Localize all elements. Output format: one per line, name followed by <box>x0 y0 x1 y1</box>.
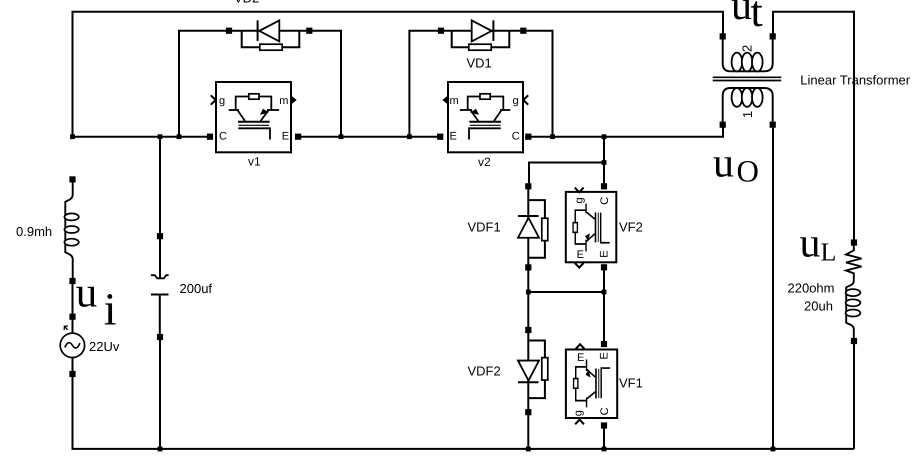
inductor load 20uh <box>846 281 861 338</box>
svg-text:g: g <box>574 197 586 203</box>
svg-text:VF2: VF2 <box>619 220 643 235</box>
source AC 22Uv <box>60 326 84 357</box>
svg-text:VDF1: VDF1 <box>468 220 501 235</box>
port VDF1 top <box>525 183 531 189</box>
wire transformer secondary to bottom rail <box>772 128 774 449</box>
port transformer bottom-right <box>770 122 776 128</box>
port VF2 C <box>601 183 607 189</box>
wire capacitor bottom stem <box>159 295 161 335</box>
svg-text:0.9mh: 0.9mh <box>16 224 52 239</box>
svg-text:E: E <box>450 130 457 142</box>
svg-text:200uf: 200uf <box>180 281 213 296</box>
port transformer bottom-left <box>720 122 726 128</box>
junction VD2 left stub <box>177 134 182 139</box>
port transformer top-left <box>720 33 726 39</box>
svg-text:v2: v2 <box>478 155 491 169</box>
junction capacitor branch <box>158 134 163 139</box>
port L1 top <box>69 176 75 182</box>
wire VD2 right stub <box>312 31 341 137</box>
svg-text:22Uv: 22Uv <box>89 339 120 354</box>
wire source stub top <box>72 319 74 333</box>
port source bottom <box>69 371 75 377</box>
port load bottom <box>851 338 857 344</box>
wire bottom rail <box>73 448 855 450</box>
junction cross left <box>526 290 531 295</box>
wire main rail segment 3 <box>531 128 723 137</box>
svg-text:E: E <box>282 130 289 142</box>
svg-text:220ohm: 220ohm <box>788 281 835 296</box>
IGBT module VF2 <box>566 188 617 268</box>
diode snubber VDF2 <box>518 333 548 409</box>
svg-text:C: C <box>599 407 611 415</box>
svg-text:v1: v1 <box>248 154 261 168</box>
diode snubber VDF1 <box>518 189 548 265</box>
junction VD1 left stub <box>407 134 412 139</box>
port VD2 right <box>306 28 312 34</box>
junction bottom rail VDF2 <box>526 447 531 452</box>
svg-text:E: E <box>599 352 611 359</box>
wire VDF1 to VDF2 <box>527 270 529 327</box>
IGBT module v2 <box>442 82 528 152</box>
wire right vertical lower <box>853 344 855 449</box>
wire VF2 feed <box>603 163 605 184</box>
port VD1 left <box>438 28 444 34</box>
wire VDF2 to bottom rail <box>527 415 529 449</box>
port v1 E <box>295 134 301 140</box>
wire capacitor branch upper <box>159 137 161 234</box>
wire cross connect <box>528 291 604 293</box>
svg-text:u: u <box>76 270 98 317</box>
svg-text:t: t <box>751 0 763 36</box>
svg-text:m: m <box>450 95 459 107</box>
junction bottom rail VF1 <box>602 447 607 452</box>
svg-text:m: m <box>279 95 288 107</box>
svg-text:g: g <box>572 410 584 416</box>
port VF1 C <box>601 422 607 428</box>
wire VD2 left stub <box>179 31 226 137</box>
port capacitor bottom <box>157 334 163 340</box>
wire cross to VF1 <box>603 292 605 341</box>
svg-text:1: 1 <box>740 111 755 118</box>
port VF2 E <box>601 264 607 270</box>
port v2 E <box>437 134 443 140</box>
port VDF2 top <box>525 327 531 333</box>
svg-text:O: O <box>737 154 759 189</box>
port VDF2 bottom <box>525 409 531 415</box>
svg-text:VDF2: VDF2 <box>468 364 501 379</box>
svg-text:VD2: VD2 <box>234 0 259 6</box>
resistor load 220ohm <box>846 246 862 282</box>
inductor L1 0.9mh <box>64 182 78 279</box>
junction node A (left rail / main rail) <box>70 134 75 139</box>
IGBT module v1 <box>211 82 297 152</box>
IGBT module VF1 <box>566 344 617 424</box>
port v2 C <box>525 134 531 140</box>
junction bottom rail capacitor <box>158 447 163 452</box>
svg-text:E: E <box>577 352 584 364</box>
port L1 bottom <box>69 278 75 284</box>
wire left vertical top <box>72 12 74 137</box>
wire L1 to source <box>72 283 74 314</box>
junction VF branch top <box>602 134 607 139</box>
svg-text:C: C <box>219 130 227 142</box>
junction VD1 right stub <box>550 134 555 139</box>
port source top <box>69 314 75 320</box>
svg-text:u: u <box>731 0 752 29</box>
junction bottom rail transformer <box>771 447 776 452</box>
wire VF2 to cross <box>603 270 605 292</box>
svg-text:Linear Transformer: Linear Transformer <box>800 73 910 88</box>
port load top <box>851 239 857 245</box>
svg-text:VF1: VF1 <box>619 376 643 391</box>
svg-text:u: u <box>713 140 734 186</box>
svg-text:E: E <box>599 250 611 257</box>
wire VF branch drop <box>603 137 605 163</box>
wire source stub bottom <box>72 358 74 372</box>
wire capacitor branch lower <box>159 340 161 449</box>
wire capacitor stub <box>159 239 161 278</box>
junction VD2 right stub <box>339 134 344 139</box>
linear transformer T1 <box>713 39 782 121</box>
port capacitor top <box>157 233 163 239</box>
wire left vertical bottom <box>72 377 74 450</box>
wire transformer top-right to right rail <box>773 12 854 34</box>
wire top rail <box>72 12 724 34</box>
port VD2 left <box>226 28 232 34</box>
svg-text:g: g <box>219 95 225 107</box>
wire right vertical <box>853 11 855 240</box>
diode snubber VD1 <box>444 20 520 50</box>
wire VD1 left stub <box>409 31 438 137</box>
svg-text:2: 2 <box>740 45 755 52</box>
svg-text:L: L <box>821 238 837 267</box>
junction cross right <box>602 290 607 295</box>
svg-text:C: C <box>599 197 611 205</box>
junction VF branch split <box>602 160 607 165</box>
wire main rail segment 1 <box>73 136 208 138</box>
diode snubber VD2 <box>231 20 307 50</box>
wire main rail segment 2 <box>301 136 438 138</box>
svg-text:g: g <box>513 95 519 107</box>
port v1 C <box>207 134 213 140</box>
svg-text:C: C <box>512 130 520 142</box>
wire VDF1 feed <box>529 163 604 184</box>
svg-text:u: u <box>800 220 821 266</box>
wire VF1 to bottom rail <box>603 429 605 450</box>
svg-text:i: i <box>104 284 117 335</box>
svg-text:E: E <box>577 249 584 261</box>
svg-text:20uh: 20uh <box>804 299 833 314</box>
wire VD1 right stub <box>526 31 552 137</box>
port VDF1 bottom <box>525 264 531 270</box>
port transformer top-right <box>770 33 776 39</box>
port VF1 E <box>601 341 607 347</box>
port VD1 right <box>520 28 526 34</box>
svg-text:VD1: VD1 <box>467 56 492 71</box>
capacitor C1 200uf <box>151 275 169 294</box>
